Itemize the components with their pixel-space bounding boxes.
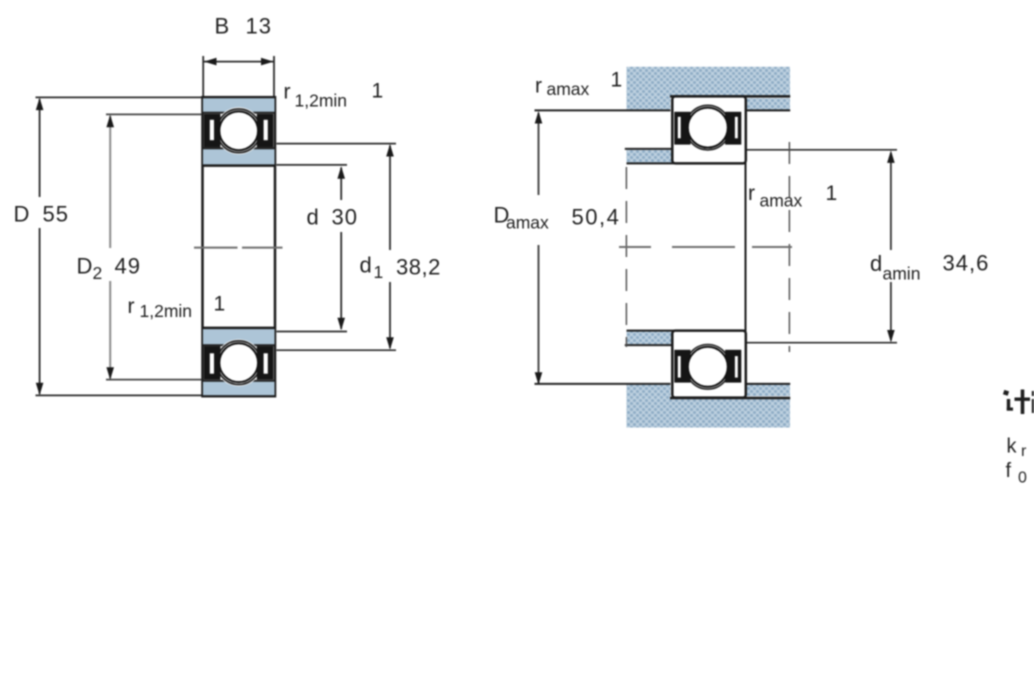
inner raceway edge bottom (203, 344, 276, 346)
svg-text:1: 1 (374, 262, 384, 282)
seal bottom-right (257, 346, 274, 380)
bore surface line top (203, 164, 276, 167)
bore surface line bottom (203, 327, 276, 330)
shoulder edge / Damax ext top (535, 109, 671, 111)
svg-text:55: 55 (43, 202, 69, 227)
seal top-left (204, 114, 221, 148)
seal top-right (right drawing) (725, 112, 741, 145)
housing bottom (627, 398, 791, 427)
arrow B right (261, 58, 274, 66)
housing bore line top (670, 95, 790, 98)
dimension D extension bottom (36, 394, 202, 396)
dimension D2 line (109, 116, 111, 248)
ball bottom (219, 343, 258, 382)
svg-text:amax: amax (760, 191, 803, 211)
groove ring bottom (686, 345, 731, 390)
dimension damin line (890, 153, 892, 250)
svg-text:34,6: 34,6 (943, 251, 990, 276)
svg-text:2: 2 (93, 263, 103, 283)
svg-text:13: 13 (246, 14, 272, 39)
arrow D2 bottom (106, 367, 114, 380)
dimension d1 line (389, 146, 391, 251)
housing shoulder top-left (627, 96, 671, 110)
svg-text:1: 1 (372, 80, 384, 103)
break line right (788, 142, 790, 352)
collar edge top (625, 148, 672, 150)
svg-text:r: r (1021, 443, 1027, 460)
shaft surface bottom (627, 330, 747, 332)
groove ring top (686, 105, 731, 150)
svg-text:r: r (128, 295, 135, 318)
seal bottom-left (right drawing) (674, 350, 690, 383)
svg-text:d: d (360, 253, 372, 278)
svg-text:1: 1 (611, 69, 623, 92)
outer raceway edge top (203, 112, 276, 114)
arrow d top (337, 166, 345, 179)
dimension D2 extension bottom (106, 379, 202, 381)
arrow d bottom (337, 318, 345, 331)
dimension D line (39, 99, 41, 197)
bearing box top (672, 96, 746, 163)
inner ring top band (203, 149, 275, 166)
bearing body outline (203, 97, 276, 396)
seal top-left (right drawing) (674, 112, 690, 145)
dimension d line (340, 168, 342, 201)
outer raceway edge bottom (203, 380, 276, 382)
svg-text:D: D (14, 202, 30, 227)
seal bottom-right (right drawing) (725, 350, 741, 383)
dimension Damax line (538, 113, 540, 195)
dimension B line (204, 61, 274, 63)
seal top-right (257, 114, 274, 148)
dimension d extension bottom (277, 331, 348, 333)
svg-text:1: 1 (826, 182, 838, 205)
svg-text:d: d (307, 205, 319, 230)
arrow Damax bottom (535, 372, 543, 385)
housing bore line bottom (670, 397, 790, 400)
svg-text:50,4: 50,4 (572, 205, 621, 230)
svg-text:amin: amin (883, 264, 921, 284)
housing shoulder bottom-left (627, 384, 671, 398)
arrow D2 top (106, 115, 114, 128)
inner ring bottom band (203, 328, 275, 345)
damin ext bottom (746, 342, 897, 344)
svg-text:k: k (1007, 436, 1018, 458)
groove ring top (217, 109, 261, 153)
dimension d1 extension top (277, 143, 397, 145)
seal bottom-left (204, 346, 221, 380)
dimension B extension left (202, 56, 204, 96)
svg-text:r: r (535, 75, 542, 98)
ball bottom (right drawing) (688, 347, 728, 387)
dimension d extension top (277, 164, 348, 166)
arrow D top (36, 98, 44, 111)
groove clearance bottom (215, 339, 262, 386)
dimension D2 extension top (106, 113, 202, 115)
shaft collar bottom-left (627, 331, 672, 344)
svg-text:1: 1 (214, 293, 226, 316)
arrow B left (204, 58, 217, 66)
damin ext top (746, 149, 897, 151)
arrow d1 bottom (386, 337, 394, 350)
collar edge bottom (625, 344, 672, 346)
shaft shoulder face (745, 149, 747, 345)
ball top (219, 111, 258, 150)
arrow D bottom (36, 383, 44, 396)
shaft surface top (627, 162, 747, 164)
arrow damin top (887, 150, 895, 163)
svg-text:30: 30 (332, 205, 358, 230)
outer ring bottom band (203, 381, 275, 395)
spacer ring bottom-right (745, 385, 790, 397)
svg-text:D: D (77, 254, 93, 279)
heading glyph (cut-off CJK, drawn as shapes) (1003, 390, 1034, 415)
dimension D extension top (36, 96, 202, 98)
ball top (right drawing) (688, 108, 728, 148)
svg-text:amax: amax (506, 213, 549, 233)
svg-text:amax: amax (547, 79, 590, 99)
svg-text:38,2: 38,2 (396, 255, 441, 280)
spacer edge bottom (745, 383, 790, 385)
break line left (625, 167, 627, 347)
outer ring top band (203, 98, 275, 112)
spacer ring top-right (745, 98, 790, 110)
dimension d1 extension bottom (277, 349, 397, 351)
arrow d1 top (386, 144, 394, 157)
svg-text:B: B (215, 14, 230, 39)
svg-text:1,2min: 1,2min (140, 301, 193, 321)
inner raceway edge top (203, 147, 276, 149)
housing top (627, 67, 791, 97)
spacer edge top (745, 109, 790, 111)
svg-text:r: r (284, 81, 291, 104)
svg-text:49: 49 (115, 254, 141, 279)
arrow damin bottom (887, 330, 895, 343)
svg-text:0: 0 (1018, 470, 1027, 487)
svg-text:f: f (1006, 460, 1012, 482)
dimension B extension right (273, 56, 275, 96)
arrow Damax top (535, 111, 543, 124)
centerline left (194, 247, 238, 249)
centerline right (619, 246, 651, 248)
groove ring bottom (217, 341, 261, 385)
svg-text:r: r (748, 182, 755, 205)
shoulder edge / Damax ext bottom (535, 383, 671, 385)
groove clearance top (215, 107, 262, 154)
bearing box bottom (672, 331, 746, 398)
svg-text:1,2min: 1,2min (295, 91, 348, 111)
svg-text:d: d (870, 251, 882, 276)
shaft collar top-left (627, 150, 672, 163)
